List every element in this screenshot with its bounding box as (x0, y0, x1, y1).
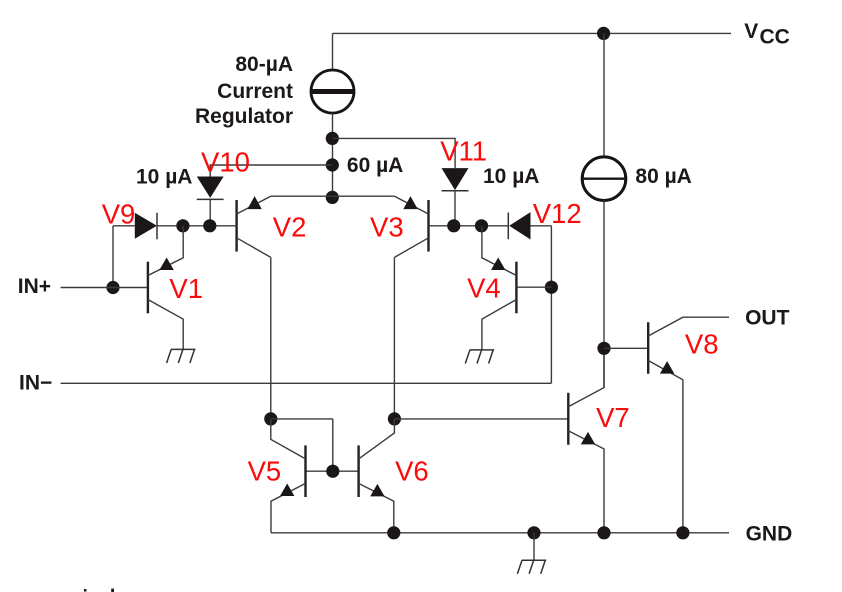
wire mirror base link (306, 470, 359, 472)
node V4 base junction (545, 281, 558, 294)
transistor V6 (359, 419, 395, 533)
svg-text:Regulator: Regulator (195, 105, 293, 128)
current source 80 uA (582, 157, 626, 201)
wire GND rail (271, 532, 729, 534)
node V6 emitter on GND (387, 526, 400, 539)
transistor V4 (482, 226, 552, 350)
node V10 cathode junction (203, 219, 216, 232)
transistor V7 (568, 348, 604, 533)
wire mirror tie top (271, 418, 333, 420)
wire tail left to V2 emitter (271, 195, 333, 197)
svg-text:V5: V5 (248, 455, 282, 486)
label VCC (744, 20, 790, 48)
node V11 junction (447, 219, 460, 232)
node 60uA (326, 158, 339, 171)
svg-text:V4: V4 (467, 273, 501, 304)
node below regulator (326, 132, 339, 145)
node V8 emitter on GND (676, 526, 689, 539)
svg-text:Current: Current (217, 80, 293, 103)
wire node to V11 top (333, 138, 456, 168)
wire V11 cathode down (454, 191, 456, 226)
svg-text:V3: V3 (370, 212, 404, 243)
transistor V8 (648, 317, 729, 533)
svg-text:IN+: IN+ (18, 275, 51, 298)
wire GND stub (533, 533, 535, 560)
wire 80uA source riser (603, 33, 605, 156)
label 80-uA Current Regulator (195, 53, 293, 128)
svg-text:60 µA: 60 µA (347, 154, 403, 177)
svg-text:OUT: OUT (745, 306, 790, 329)
svg-text:V1: V1 (169, 273, 203, 304)
cropped text remnants bottom left (84, 589, 86, 592)
node V6 collector (388, 412, 401, 425)
wire IN+ lead (61, 287, 148, 289)
wire V12 anode right (531, 225, 552, 227)
node GND symbol tap (527, 526, 540, 539)
node IN+ junction (106, 281, 119, 294)
node VCC tap (597, 27, 610, 40)
wire node to V10 top (210, 165, 332, 177)
node V7 emitter on GND (597, 526, 610, 539)
wire 80uA source down (603, 201, 605, 388)
current source 80-uA regulator (311, 70, 355, 113)
node V8 base junction (597, 342, 610, 355)
diode V12 (508, 212, 530, 239)
wire IN+ left leg (112, 226, 114, 288)
node mirror base (326, 465, 339, 478)
svg-text:V8: V8 (685, 329, 719, 360)
transistor V3 (394, 196, 428, 257)
svg-text:GND: GND (746, 523, 793, 546)
svg-text:V10: V10 (201, 147, 250, 178)
svg-text:V11: V11 (440, 136, 487, 167)
transistor V1 (148, 226, 183, 350)
ground bottom center (517, 560, 546, 574)
wire V3 collector down (393, 257, 395, 419)
svg-text:CC: CC (760, 25, 790, 48)
wire regulator top riser (332, 33, 334, 70)
wire tail right to V3 emitter (332, 195, 394, 197)
wire IN- lead (61, 382, 552, 384)
diode V9 (135, 213, 157, 240)
node V4 emitter junction (475, 219, 488, 232)
wire regulator bottom to tail node (332, 113, 334, 198)
wire V12 right leg down to IN- (550, 226, 552, 383)
transistor V5 (271, 419, 306, 533)
svg-text:10 µA: 10 µA (483, 165, 539, 188)
wire V3 base to V12 (429, 225, 509, 227)
node V1 emitter junction (176, 219, 189, 232)
node V5 collector (264, 412, 277, 425)
svg-text:IN−: IN− (19, 371, 52, 394)
transistor V2 (237, 196, 271, 257)
diode V11 (442, 168, 469, 191)
wire VCC rail (333, 32, 732, 34)
svg-text:80-µA: 80-µA (235, 53, 293, 76)
svg-text:V7: V7 (596, 402, 630, 433)
svg-text:V9: V9 (102, 199, 136, 230)
wire V9 left lead (113, 225, 135, 227)
svg-text:V: V (744, 20, 758, 43)
svg-text:V12: V12 (533, 198, 582, 229)
node tail of V2 V3 (326, 191, 339, 204)
svg-text:V2: V2 (273, 212, 307, 243)
svg-text:V6: V6 (395, 455, 429, 486)
wire V8 base (604, 347, 648, 349)
wire V9 cathode to V2 base (157, 225, 237, 227)
svg-text:10 µA: 10 µA (136, 165, 192, 188)
svg-text:80 µA: 80 µA (635, 165, 691, 188)
wire V7 base (394, 418, 568, 420)
wire V10 cathode down (209, 199, 211, 225)
diode V10 (197, 177, 224, 200)
ground below V4 (465, 350, 494, 364)
wire V2 collector down (270, 257, 272, 419)
wire mirror tie riser (332, 419, 334, 471)
ground below V1 (167, 349, 196, 363)
